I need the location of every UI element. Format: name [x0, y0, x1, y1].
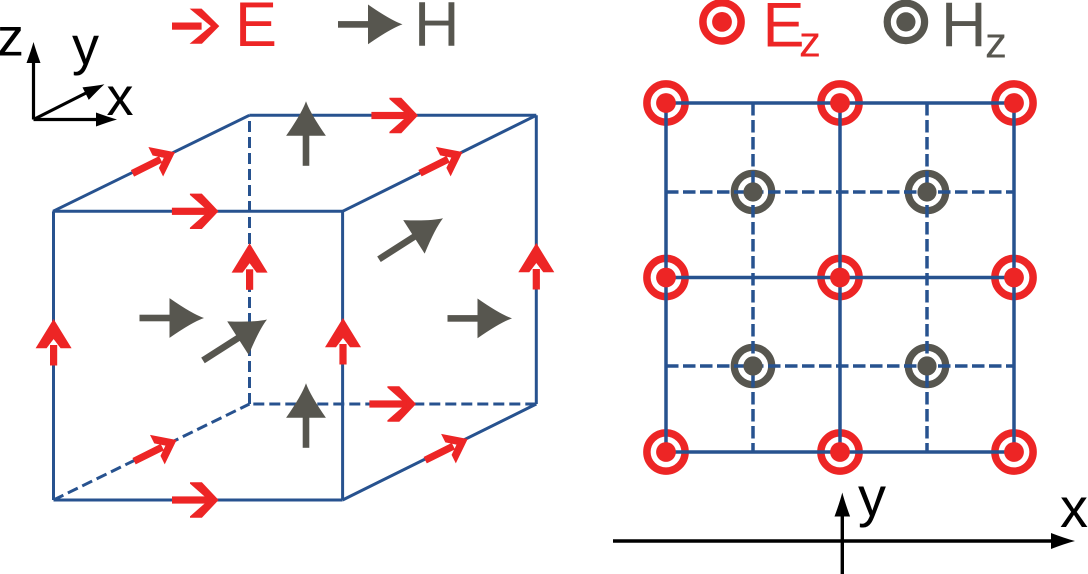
- E arrow top-front edge: [172, 194, 219, 229]
- grid solid vertical line middle: [838, 103, 842, 452]
- Ez node ring (0,1): [647, 258, 685, 296]
- Ez node ring (0,0): [647, 433, 685, 471]
- dual grid dashed vertical line right: [925, 103, 929, 452]
- E arrow top-back edge: [371, 98, 418, 133]
- legend gray arrow: [338, 5, 403, 45]
- Ez node ring (2,2): [995, 84, 1033, 122]
- x axis line (grid): [613, 539, 1058, 542]
- H arrow left face: [140, 298, 205, 338]
- Hz node ring (0,1): [734, 173, 771, 210]
- H arrow right face: [448, 299, 513, 339]
- svg-text:H: H: [414, 0, 460, 60]
- y axis arrowhead (grid): [835, 493, 851, 517]
- E arrow front-right vertical edge: [325, 318, 361, 365]
- y axis arrowhead: [82, 78, 107, 100]
- Hz node dot (0,0): [743, 356, 762, 375]
- E arrow bottom-front edge: [172, 482, 219, 517]
- cube edge top-left depth: [53, 115, 249, 211]
- cube edge top-back: [249, 114, 536, 117]
- Hz node dot (1,1): [917, 182, 936, 201]
- Ez node dot (2,1): [1004, 268, 1024, 288]
- dual grid dashed horizontal line lower: [666, 364, 1014, 368]
- y axis line: [34, 92, 90, 120]
- x axis line: [34, 118, 102, 121]
- x axis arrowhead (grid): [1051, 533, 1075, 549]
- H arrow front face (diagonal): [192, 303, 277, 377]
- svg-text:z: z: [0, 7, 24, 67]
- legend gray circled dot: [887, 3, 924, 40]
- dual grid dashed vertical line left: [751, 103, 755, 452]
- E arrow front-left vertical edge: [36, 319, 72, 366]
- cube edge bottom-right depth: [343, 404, 537, 500]
- svg-text:z: z: [985, 19, 1007, 68]
- Ez node ring (2,1): [995, 258, 1033, 296]
- grid solid horizontal line middle: [666, 276, 1014, 280]
- cube hidden edge left-back vertical: [248, 115, 251, 404]
- cube edge top-front: [53, 210, 343, 213]
- E arrow bottom-left depth edge: [127, 425, 184, 476]
- Ez node ring (1,0): [821, 433, 859, 471]
- z axis line: [32, 56, 35, 120]
- Ez node ring (1,2): [821, 84, 859, 122]
- Hz node ring (1,0): [908, 347, 945, 384]
- Ez node dot (0,1): [656, 268, 676, 288]
- grid solid horizontal line top: [666, 101, 1014, 105]
- grid solid horizontal line bottom: [666, 450, 1014, 454]
- E arrow top-right depth edge: [413, 137, 470, 188]
- dual grid dashed horizontal line upper: [666, 190, 1014, 194]
- legend red arrow: [172, 9, 219, 44]
- legend red circled dot: [703, 3, 741, 41]
- H arrow back face (diagonal): [368, 202, 453, 276]
- Ez node dot (2,2): [1004, 93, 1024, 113]
- cube edge left-front vertical: [52, 211, 55, 500]
- Ez node ring (0,2): [647, 84, 685, 122]
- svg-text:E: E: [235, 0, 277, 60]
- cube edge top-right depth: [343, 115, 537, 211]
- svg-text:z: z: [799, 17, 821, 66]
- Hz node ring (0,0): [734, 347, 771, 384]
- cube hidden edge bottom-left depth: [54, 404, 250, 500]
- cube edge right-back vertical: [535, 115, 538, 404]
- svg-text:y: y: [858, 465, 886, 528]
- Ez node ring (1,1): [821, 258, 859, 296]
- E arrow back-left vertical edge: [232, 243, 268, 289]
- y axis line (grid): [841, 502, 844, 574]
- Ez node ring (2,0): [995, 433, 1033, 471]
- Ez node dot (0,0): [656, 442, 676, 462]
- H arrow bottom face: [286, 383, 326, 448]
- grid solid vertical line right: [1012, 103, 1016, 452]
- Ez node dot (1,1): [830, 268, 850, 288]
- Ez node dot (1,2): [830, 93, 850, 113]
- svg-text:x: x: [107, 67, 134, 127]
- z axis arrowhead: [27, 42, 41, 63]
- Ez node dot (1,0): [830, 442, 850, 462]
- E arrow bottom-back edge: [369, 386, 416, 421]
- svg-text:y: y: [72, 17, 99, 77]
- cube hidden edge bottom-back: [250, 403, 537, 406]
- Ez node dot (0,2): [656, 93, 676, 113]
- cube edge bottom-front: [54, 499, 343, 502]
- svg-text:H: H: [941, 0, 987, 60]
- x axis arrowhead: [96, 113, 117, 127]
- Hz node dot (0,1): [743, 182, 762, 201]
- E arrow back-right vertical edge: [518, 243, 554, 290]
- svg-text:x: x: [1060, 476, 1088, 539]
- grid solid vertical line left: [664, 103, 668, 452]
- H arrow top face: [286, 101, 326, 166]
- E arrow bottom-right depth edge: [418, 424, 475, 475]
- E arrow top-left depth edge: [125, 137, 182, 188]
- Hz node dot (1,0): [917, 356, 936, 375]
- Hz node ring (1,1): [908, 173, 945, 210]
- Ez node dot (2,0): [1004, 442, 1024, 462]
- cube edge right-front vertical: [341, 211, 344, 500]
